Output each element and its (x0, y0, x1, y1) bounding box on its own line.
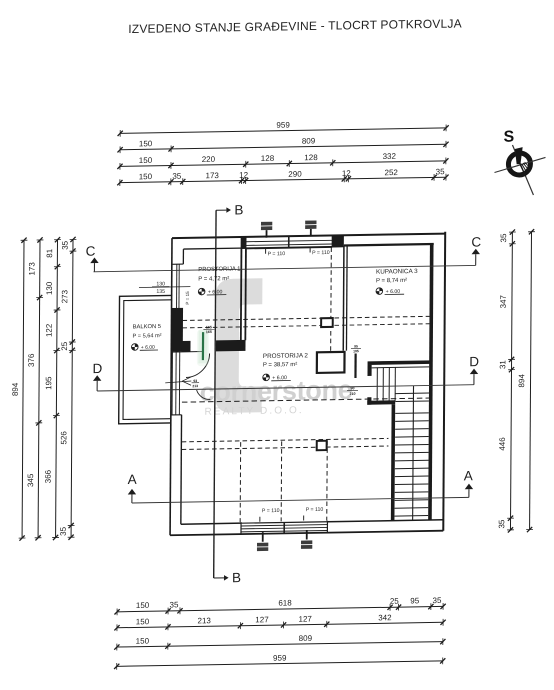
svg-text:127: 127 (299, 614, 313, 623)
wall outer bottom (170, 531, 443, 536)
svg-text:B: B (234, 202, 243, 217)
top dimension row 150|809 (120, 144, 446, 149)
left dimension column 81|130|122|195|366 (56, 240, 58, 538)
bottom dimension row 150|213|127|127|342 (117, 622, 443, 627)
bottom dimension row 150|809 (117, 642, 443, 647)
svg-text:12: 12 (239, 170, 249, 179)
svg-text:P = 110: P = 110 (262, 508, 280, 514)
svg-text:C: C (471, 234, 481, 249)
bottom window label P=110 second (303, 516, 305, 521)
svg-text:165: 165 (206, 325, 212, 329)
left dimension column 894 (22, 240, 24, 538)
dashed roof line long (182, 398, 430, 402)
top dimension row 150|220|128|128|332 (120, 161, 446, 166)
balcony door swing arc (186, 354, 210, 378)
section marker B bottom (214, 577, 224, 579)
svg-text:290: 290 (288, 170, 302, 179)
svg-text:P = 4,72 m²: P = 4,72 m² (198, 275, 229, 283)
lower door swing arc (197, 390, 211, 400)
roof window mark bottom first (262, 532, 264, 542)
svg-text:526: 526 (59, 431, 68, 445)
north arrow circle (508, 153, 530, 175)
svg-text:150: 150 (136, 636, 150, 645)
wall outer right (443, 232, 445, 531)
bathroom right wall thick (428, 244, 433, 520)
svg-text:213: 213 (192, 384, 198, 388)
svg-text:122: 122 (45, 323, 54, 337)
balcony level mark +6.00 (131, 344, 138, 351)
svg-text:130: 130 (45, 281, 54, 295)
room1 level mark +6.00 (198, 288, 205, 295)
svg-text:220: 220 (202, 155, 216, 164)
svg-text:25: 25 (390, 597, 400, 606)
bathroom level mark +6.00 (376, 288, 383, 295)
svg-text:150: 150 (139, 156, 153, 165)
svg-text:809: 809 (299, 634, 313, 643)
left wall inner line lower segment (180, 415, 183, 524)
svg-text:150: 150 (139, 139, 153, 148)
svg-text:959: 959 (276, 121, 290, 130)
dashed ridge vertical (330, 247, 333, 352)
svg-text:35: 35 (436, 167, 446, 176)
stair entry corner pier (367, 397, 371, 404)
bathroom door leaf (354, 353, 356, 378)
left dimension column 35|273|25|526|35 (71, 239, 73, 537)
svg-text:128: 128 (304, 153, 318, 162)
wall inner top line bathroom (344, 244, 434, 246)
dashed roof line upper pair (182, 316, 429, 320)
bottom window label P=110 first (259, 517, 261, 522)
section line A-A (132, 497, 469, 503)
svg-text:C: C (86, 244, 96, 259)
room1 bottom wall black right part (216, 340, 246, 351)
balcony door leader fan (182, 377, 191, 381)
bottom window band glazing (241, 522, 327, 523)
svg-text:P = 38,57 m²: P = 38,57 m² (263, 361, 297, 369)
left dimension column 173|376|345 (38, 240, 40, 538)
svg-text:332: 332 (383, 152, 397, 161)
post box on lower dashed line (317, 441, 327, 450)
bottom wall inner line left (181, 523, 241, 524)
watermark logo big C (215, 278, 263, 413)
bottom dimension row 959 (117, 661, 443, 666)
top window band caps and mullion (244, 237, 246, 249)
left wall balcony door frame (171, 352, 173, 415)
svg-text:P = 15: P = 15 (185, 291, 190, 305)
section line C-C (93, 265, 475, 271)
dashed roof line lower pair (182, 438, 389, 441)
stair enclosure wall vertical (391, 404, 395, 520)
svg-text:P = 110: P = 110 (312, 250, 330, 256)
left wall black segment (171, 308, 183, 351)
svg-text:345: 345 (26, 473, 35, 487)
north arrow needle lines (512, 145, 534, 196)
svg-text:210: 210 (349, 392, 355, 396)
bottom window band caps and mullion (240, 522, 242, 534)
svg-text:81: 81 (45, 248, 54, 258)
svg-text:D: D (92, 361, 102, 376)
svg-text:150: 150 (139, 172, 153, 181)
svg-text:25: 25 (60, 341, 69, 351)
svg-text:894: 894 (11, 382, 20, 396)
svg-text:35: 35 (433, 596, 443, 605)
north arrow dark wedge (515, 147, 523, 164)
svg-text:P = 8,74 m²: P = 8,74 m² (376, 277, 407, 285)
svg-text:894: 894 (517, 374, 526, 388)
roof window mark top first (261, 222, 272, 226)
top window band glazing lines (245, 240, 332, 241)
svg-text:D: D (469, 354, 479, 369)
top window label P=110 second (309, 247, 311, 252)
svg-text:959: 959 (273, 654, 287, 663)
svg-text:195: 195 (44, 376, 53, 390)
bathroom left wall double line (342, 246, 345, 350)
svg-text:150: 150 (136, 601, 150, 610)
svg-text:95: 95 (410, 596, 420, 605)
svg-text:35: 35 (170, 600, 180, 609)
bathroom wall pier below door (367, 365, 371, 376)
svg-text:S: S (504, 129, 515, 146)
svg-text:12: 12 (342, 169, 352, 178)
svg-text:273: 273 (60, 289, 69, 303)
left wall window glazing (176, 264, 178, 308)
top wall black pier left of window (241, 237, 247, 249)
svg-text:B: B (232, 570, 241, 585)
chimney box bathroom (317, 352, 345, 373)
wall inner top line room1 (183, 246, 343, 249)
svg-text:446: 446 (498, 437, 507, 451)
svg-text:31: 31 (498, 360, 507, 370)
svg-text:376: 376 (27, 353, 36, 367)
svg-text:127: 127 (255, 615, 269, 624)
svg-text:BALKON 5: BALKON 5 (133, 323, 161, 330)
svg-text:173: 173 (205, 171, 219, 180)
wall outer top (172, 234, 445, 239)
svg-text:35: 35 (497, 519, 506, 529)
top window label P=110 first (265, 249, 267, 254)
right dimension column 35|347|31|446|35 (510, 232, 512, 530)
svg-text:252: 252 (384, 168, 398, 177)
bathroom bottom wall thick (368, 360, 431, 365)
roof window mark bottom second (306, 530, 308, 540)
svg-text:P = 110: P = 110 (268, 251, 286, 257)
dashed dormer verticals (239, 442, 242, 522)
svg-text:165: 165 (206, 330, 212, 334)
svg-text:A: A (464, 468, 473, 483)
svg-text:A: A (128, 472, 137, 487)
wall outer left (170, 238, 172, 535)
svg-text:150: 150 (136, 617, 150, 626)
svg-text:PROSTORIJA 2: PROSTORIJA 2 (263, 352, 309, 360)
room1 door threshold line (171, 351, 202, 354)
green door glow (197, 329, 209, 366)
room1 bottom wall black left part (181, 341, 190, 352)
svg-text:135: 135 (156, 289, 165, 295)
svg-text:P = 110: P = 110 (306, 507, 324, 513)
right dimension column 894 (530, 232, 532, 530)
svg-text:366: 366 (44, 469, 53, 483)
svg-text:35: 35 (499, 233, 508, 243)
svg-text:P = 5,64 m²: P = 5,64 m² (133, 333, 162, 339)
section line B vertical (214, 210, 216, 578)
svg-text:128: 128 (261, 154, 275, 163)
bottom dimension row 150|35|618|25|95|35 (117, 606, 443, 611)
stair upper run treads (376, 368, 378, 402)
stair enclosure wall horizontal (367, 400, 395, 404)
svg-text:195: 195 (353, 349, 359, 353)
svg-text:95: 95 (354, 344, 358, 348)
roof window mark top second (305, 220, 316, 224)
top dimension row 150|35|173|12|290|12|252|35 (120, 177, 446, 182)
balcony outer wall (119, 295, 172, 423)
svg-text:35: 35 (59, 526, 68, 536)
green door leaf (202, 332, 204, 360)
svg-text:173: 173 (27, 262, 36, 276)
svg-text:342: 342 (378, 613, 392, 622)
svg-text:REALTY D.O.O.: REALTY D.O.O. (205, 405, 304, 418)
left wall inner line top segment (182, 249, 184, 264)
stair mid rail line (412, 386, 415, 521)
svg-text:35: 35 (61, 240, 70, 250)
room1 right wall double line (240, 248, 243, 340)
room2 level mark +6.00 (263, 374, 270, 381)
svg-text:93: 93 (193, 379, 197, 383)
svg-text:KUPAONICA 3: KUPAONICA 3 (376, 268, 418, 276)
svg-text:347: 347 (499, 294, 508, 308)
top wall black pier right of window (332, 235, 344, 247)
svg-text:809: 809 (302, 136, 316, 145)
section line D-D (97, 385, 474, 391)
post box on upper dashed line (321, 318, 333, 327)
section marker B top (216, 209, 226, 211)
svg-text:213: 213 (198, 616, 212, 625)
svg-text:618: 618 (278, 598, 292, 607)
bottom wall inner line right (327, 520, 443, 522)
top dimension line row 959 (120, 128, 446, 133)
stair upper run top line (372, 366, 430, 369)
svg-text:35: 35 (172, 172, 182, 181)
balcony inner wall (123, 300, 172, 420)
stair main run treads (395, 392, 429, 395)
